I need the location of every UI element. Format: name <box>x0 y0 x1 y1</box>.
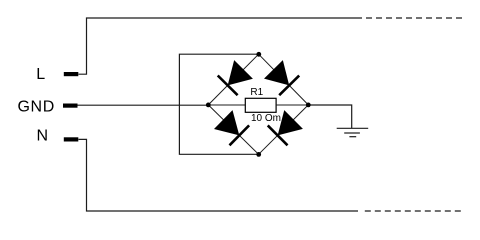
svg-text:R1: R1 <box>250 87 263 98</box>
wire right node to ground <box>308 105 351 128</box>
diode VD2 top-right (points to right node) <box>263 60 299 96</box>
resistor R1 body <box>245 98 276 112</box>
svg-text:N: N <box>37 128 49 145</box>
wire resistor to right node <box>276 104 308 106</box>
node top junction <box>256 52 261 57</box>
diode VD1 top-left (points to left node) <box>218 60 254 96</box>
terminal pin GND <box>63 104 78 108</box>
wire diamond side right-bottom <box>259 105 309 154</box>
diode VD4 bottom-right (points to bottom node) <box>268 110 304 146</box>
node bottom junction <box>256 152 261 157</box>
svg-text:GND: GND <box>18 99 55 116</box>
svg-text:L: L <box>36 66 45 83</box>
node right junction <box>306 103 311 108</box>
terminal pin L <box>64 72 79 76</box>
wire diamond side left-bottom <box>208 105 258 154</box>
wire diamond side top-right <box>259 54 309 105</box>
ground symbol <box>337 128 369 136</box>
wire diamond side left-top <box>208 54 258 105</box>
wire top dashed continuation <box>366 17 463 19</box>
wire top rail from L <box>79 18 363 74</box>
wire bottom rail from N <box>79 139 359 211</box>
terminal pin N <box>64 137 79 141</box>
diode VD3 bottom-left (points to bottom node) <box>213 110 249 146</box>
node left junction <box>206 103 211 108</box>
wire left loop top node to bottom node <box>179 54 258 154</box>
svg-text:10 Om: 10 Om <box>251 113 281 124</box>
wire left node to resistor <box>208 104 245 106</box>
wire bottom dashed continuation <box>365 210 464 212</box>
wire GND to bridge left node <box>78 104 209 106</box>
